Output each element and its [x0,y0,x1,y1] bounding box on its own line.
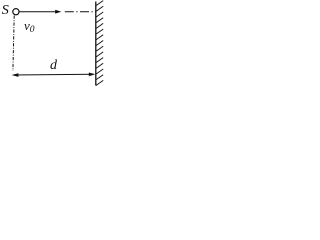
svg-text:d: d [50,58,58,73]
svg-text:S: S [2,3,9,18]
